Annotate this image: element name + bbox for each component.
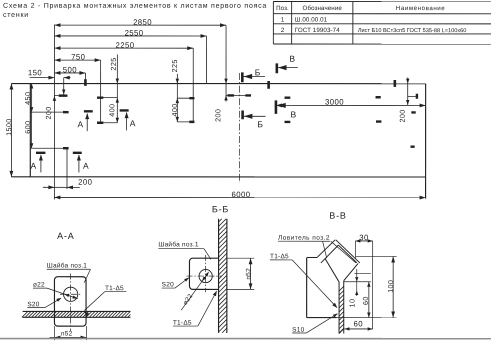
B-B hole circle <box>199 269 212 282</box>
element washer row1 col3 dash <box>189 97 194 99</box>
svg-text:В: В <box>289 54 295 64</box>
B-B sheet bar hatching <box>219 219 222 222</box>
edge element tick right <box>394 80 397 87</box>
section A mark 1 arrow <box>86 114 88 132</box>
svg-text:п52: п52 <box>61 331 73 338</box>
connector through center elements <box>226 94 251 96</box>
svg-text:200: 200 <box>44 106 53 119</box>
section A mark 1 element dash <box>84 110 93 112</box>
dimension 2250 extension line <box>192 48 194 122</box>
dimension 3000 <box>276 104 426 106</box>
cluster1 connector lines <box>101 97 118 99</box>
element dash col6 row1 <box>285 97 291 99</box>
V-V catcher plate left edge <box>306 258 308 318</box>
svg-text:А: А <box>83 161 89 171</box>
A-A sheet section strip top line <box>23 310 131 312</box>
V-V sheet bar hatching <box>339 286 344 291</box>
right element stub line <box>408 95 417 97</box>
section B mark upper tick <box>241 72 244 82</box>
dimension 2250 <box>54 47 193 49</box>
V-V guide flare right inner <box>338 245 356 263</box>
svg-text:225: 225 <box>170 59 179 72</box>
V-V slot left vertical <box>338 282 340 289</box>
A-A sheet hatching <box>22 311 28 317</box>
dimension 2550 <box>54 35 206 37</box>
svg-text:Ш.00.00.01: Ш.00.00.01 <box>295 17 328 24</box>
V-V sheet bar left edge <box>338 289 340 333</box>
dimension 750 <box>54 59 100 61</box>
svg-text:Т1-Δ5: Т1-Δ5 <box>270 253 289 260</box>
dimension 225 and 400 line cluster2 <box>176 74 178 122</box>
sheet left edge <box>29 84 31 177</box>
section V mark upper tick <box>276 63 279 73</box>
svg-text:2850: 2850 <box>133 18 152 27</box>
section V mark lower tick <box>275 100 278 114</box>
svg-text:Схема 2 - Приварка монтажных э: Схема 2 - Приварка монтажных элементов к… <box>3 3 267 10</box>
edge element tick at 500 <box>84 79 87 86</box>
A-A dimension 52 <box>53 326 55 340</box>
V-V dimension 60 vertical <box>344 281 371 283</box>
section V mark upper arrow <box>277 67 298 69</box>
element dash col7 row1 <box>376 96 381 98</box>
V-V dimension 10 <box>354 272 370 274</box>
V-V slot right vertical <box>343 281 345 290</box>
svg-text:В-В: В-В <box>329 211 346 221</box>
section B mark upper arrow <box>242 75 265 77</box>
dimension 2850 <box>54 24 226 26</box>
A-A vertical center line <box>70 273 72 331</box>
svg-text:Наименование: Наименование <box>396 5 446 12</box>
section B mark lower arrow <box>243 115 266 117</box>
svg-text:ГОСТ 19903-74: ГОСТ 19903-74 <box>295 27 340 34</box>
V-V sheet bar right edge <box>343 289 345 333</box>
svg-text:450: 450 <box>23 92 32 105</box>
section A mark 2 arrow <box>126 113 128 131</box>
dimension 2850 extension line <box>225 25 227 101</box>
svg-text:Обозначение: Обозначение <box>303 5 343 12</box>
svg-text:100: 100 <box>386 280 395 293</box>
V-V guide flare left inner <box>321 245 339 263</box>
A-A washer plate outline <box>54 277 86 326</box>
svg-text:200: 200 <box>398 109 407 122</box>
dimension 6000 <box>54 196 425 198</box>
svg-text:225: 225 <box>109 57 118 70</box>
svg-text:3000: 3000 <box>325 98 344 107</box>
V-V dimension 100 <box>356 255 397 257</box>
V-V catcher plate top edge <box>307 257 318 259</box>
svg-text:А: А <box>31 161 37 171</box>
section V mark lower arrow <box>277 103 286 108</box>
element dash at 450 row <box>63 111 69 113</box>
element dash col8 row4 <box>411 145 415 147</box>
svg-text:Б-Б: Б-Б <box>212 204 229 214</box>
svg-text:Шайба поз.1: Шайба поз.1 <box>158 240 199 248</box>
svg-text:S20: S20 <box>162 281 174 288</box>
svg-text:А: А <box>130 118 136 128</box>
cluster2 connector lines <box>177 97 193 99</box>
B-B dimension 52 <box>227 257 254 259</box>
section B mark lower tick <box>241 110 244 119</box>
svg-text:600: 600 <box>23 121 32 134</box>
svg-text:150: 150 <box>28 68 42 77</box>
dimension 600 <box>31 112 33 148</box>
dimension 150 <box>30 77 55 79</box>
dimension 2550 extension line <box>206 36 208 84</box>
element washer row2 col3 dash <box>189 121 194 123</box>
svg-text:Лист Б10 ВСт3сп5 ГОСТ 535-88 L: Лист Б10 ВСт3сп5 ГОСТ 535-88 L=100х60 <box>358 28 467 34</box>
dimension 200 right <box>407 78 409 105</box>
section A mark 3 element dash <box>36 152 45 154</box>
svg-text:10: 10 <box>347 299 356 308</box>
dimension 750 extension line <box>100 60 102 123</box>
sheet bottom edge <box>11 176 425 178</box>
section A mark 3 arrow <box>40 155 42 173</box>
element dash col6 row2 <box>285 121 291 123</box>
dimension 1500 <box>10 84 12 177</box>
svg-text:6000: 6000 <box>232 190 251 199</box>
sheet top edge <box>11 83 425 85</box>
dimension 200 bottom extension line <box>66 148 68 189</box>
svg-text:1: 1 <box>281 17 285 24</box>
element washer row2 col2 dash <box>97 122 103 124</box>
V-V guide flare left outer <box>317 240 335 257</box>
page bottom grey line <box>0 338 491 340</box>
section A mark 2 element dash <box>120 109 129 111</box>
svg-text:200: 200 <box>213 109 222 122</box>
svg-text:1500: 1500 <box>4 118 13 136</box>
svg-text:стенки: стенки <box>3 12 29 19</box>
svg-text:А-А: А-А <box>57 231 74 241</box>
V-V guide flare right outer <box>336 240 360 263</box>
V-V catcher plate bottom edge <box>307 317 337 319</box>
svg-text:500: 500 <box>63 65 77 74</box>
element dash left of center line <box>227 94 234 96</box>
element dash col8 row3 <box>411 111 415 113</box>
section A mark 4 element dash <box>73 152 82 154</box>
svg-text:30: 30 <box>359 233 369 242</box>
svg-text:400: 400 <box>107 104 116 117</box>
svg-text:п52: п52 <box>245 268 252 280</box>
dimension 500 <box>54 72 85 74</box>
B-B sheet bar left edge <box>218 219 220 333</box>
svg-text:2: 2 <box>281 27 285 34</box>
svg-text:Б: Б <box>257 119 263 129</box>
svg-text:60: 60 <box>354 319 364 328</box>
feature line 600 row <box>30 147 63 149</box>
svg-text:400: 400 <box>170 103 179 116</box>
B-B label diameter 22 diagonal <box>181 273 208 310</box>
svg-text:750: 750 <box>71 53 85 62</box>
B-B sheet bar right edge <box>226 219 228 333</box>
reference line at weld seam <box>53 25 55 200</box>
svg-text:2550: 2550 <box>125 28 144 37</box>
dimension 150 drop line to element <box>63 78 65 95</box>
edge element tick mid <box>267 81 270 89</box>
svg-text:Поз.: Поз. <box>276 5 289 12</box>
svg-text:60: 60 <box>361 296 370 305</box>
svg-text:Т1-Δ5: Т1-Δ5 <box>173 320 192 327</box>
spec table grid <box>273 1 491 3</box>
V-V notch left diagonal <box>325 258 339 282</box>
element dash col7 row2 <box>376 120 381 122</box>
svg-text:S10: S10 <box>292 327 304 334</box>
svg-text:В: В <box>291 109 297 119</box>
B-B washer plate outline <box>189 258 218 289</box>
dimension 200 bottom left <box>43 186 80 188</box>
V-V dimension 30 <box>355 240 372 242</box>
A-A sheet section strip bottom line <box>23 316 131 318</box>
B-B horizontal center line <box>187 275 222 277</box>
V-V dimension 60 bottom <box>344 328 372 330</box>
V-V notch right diagonal <box>344 263 358 280</box>
section A mark 4 arrow <box>78 155 80 173</box>
feature line 450 row <box>30 111 63 113</box>
svg-text:Шайба поз.1: Шайба поз.1 <box>47 262 88 270</box>
element dash right of center line <box>245 94 251 96</box>
svg-text:Ловитель поз.2: Ловитель поз.2 <box>278 235 330 242</box>
A-A horizontal center line <box>60 293 82 295</box>
dimension 225 and 400 line cluster1 <box>116 54 118 122</box>
svg-text:⌀22: ⌀22 <box>33 282 45 289</box>
sheet center line <box>238 73 240 183</box>
element dash at 600 row <box>63 147 69 149</box>
svg-text:2250: 2250 <box>116 41 135 50</box>
sheet right edge <box>425 84 427 199</box>
svg-text:А: А <box>78 119 84 129</box>
dimension 500 extension line <box>84 73 86 79</box>
element washer row1 col1 dash <box>59 94 68 96</box>
B-B vertical center line <box>205 255 207 292</box>
right element vertical tick <box>416 94 418 99</box>
dimension 450 <box>31 84 33 113</box>
element washer row1 col2 dash <box>97 96 103 98</box>
svg-text:Б: Б <box>255 67 261 77</box>
A-A hole circle <box>64 287 78 301</box>
svg-text:200: 200 <box>78 178 92 187</box>
